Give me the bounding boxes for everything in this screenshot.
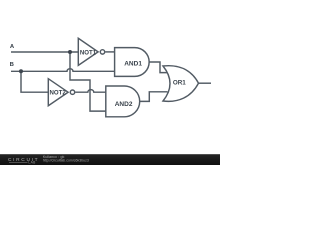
svg-text:AND2: AND2 — [115, 101, 133, 108]
svg-text:NOT2: NOT2 — [49, 90, 66, 97]
svg-text:B: B — [10, 62, 14, 68]
svg-text:OR1: OR1 — [173, 79, 186, 86]
svg-text:AND1: AND1 — [124, 61, 142, 68]
svg-text:http://circuitlab.com/c6k3buz3: http://circuitlab.com/c6k3buz3 — [43, 159, 89, 163]
svg-text:A: A — [10, 44, 15, 50]
svg-text:LAB: LAB — [28, 161, 36, 165]
svg-text:NOT1: NOT1 — [80, 49, 97, 56]
